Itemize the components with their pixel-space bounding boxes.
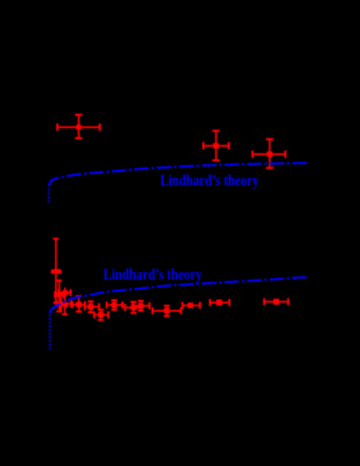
bottom data point L <box>153 306 182 316</box>
top panel: Lindhard theory curve (flat dash-dot part) <box>49 163 308 187</box>
bottom data point F <box>85 302 99 313</box>
bottom data point A (tall error bar) <box>52 239 60 303</box>
bottom data point C <box>59 288 71 315</box>
bottom panel: Lindhard theory curve (flat dash-dot part) <box>50 277 309 313</box>
bottom data point H (low point) <box>94 310 108 320</box>
bottom data point I <box>107 300 123 309</box>
bottom data point N <box>210 299 229 306</box>
bottom data point O <box>264 298 288 305</box>
bottom data point M <box>183 302 201 309</box>
bottom data point B <box>55 281 64 312</box>
bottom data point E <box>72 296 85 311</box>
bottom panel label: Lindhard's theory <box>103 266 202 284</box>
bottom data point D <box>56 298 71 312</box>
bottom data point J <box>125 302 141 313</box>
top panel: Lindhard theory curve (steep dotted part) <box>48 187 50 203</box>
bottom panel: Lindhard theory curve (steep dotted part) <box>49 313 51 350</box>
top data point P3 <box>253 139 286 168</box>
bottom data point K <box>133 301 150 311</box>
top panel label: Lindhard's theory <box>160 173 259 191</box>
top data point P2 <box>203 131 228 161</box>
svg-text:Lindhard’s theory: Lindhard’s theory <box>160 173 259 191</box>
svg-text:Lindhard’s theory: Lindhard’s theory <box>103 266 202 284</box>
top data point P1 <box>57 115 100 138</box>
